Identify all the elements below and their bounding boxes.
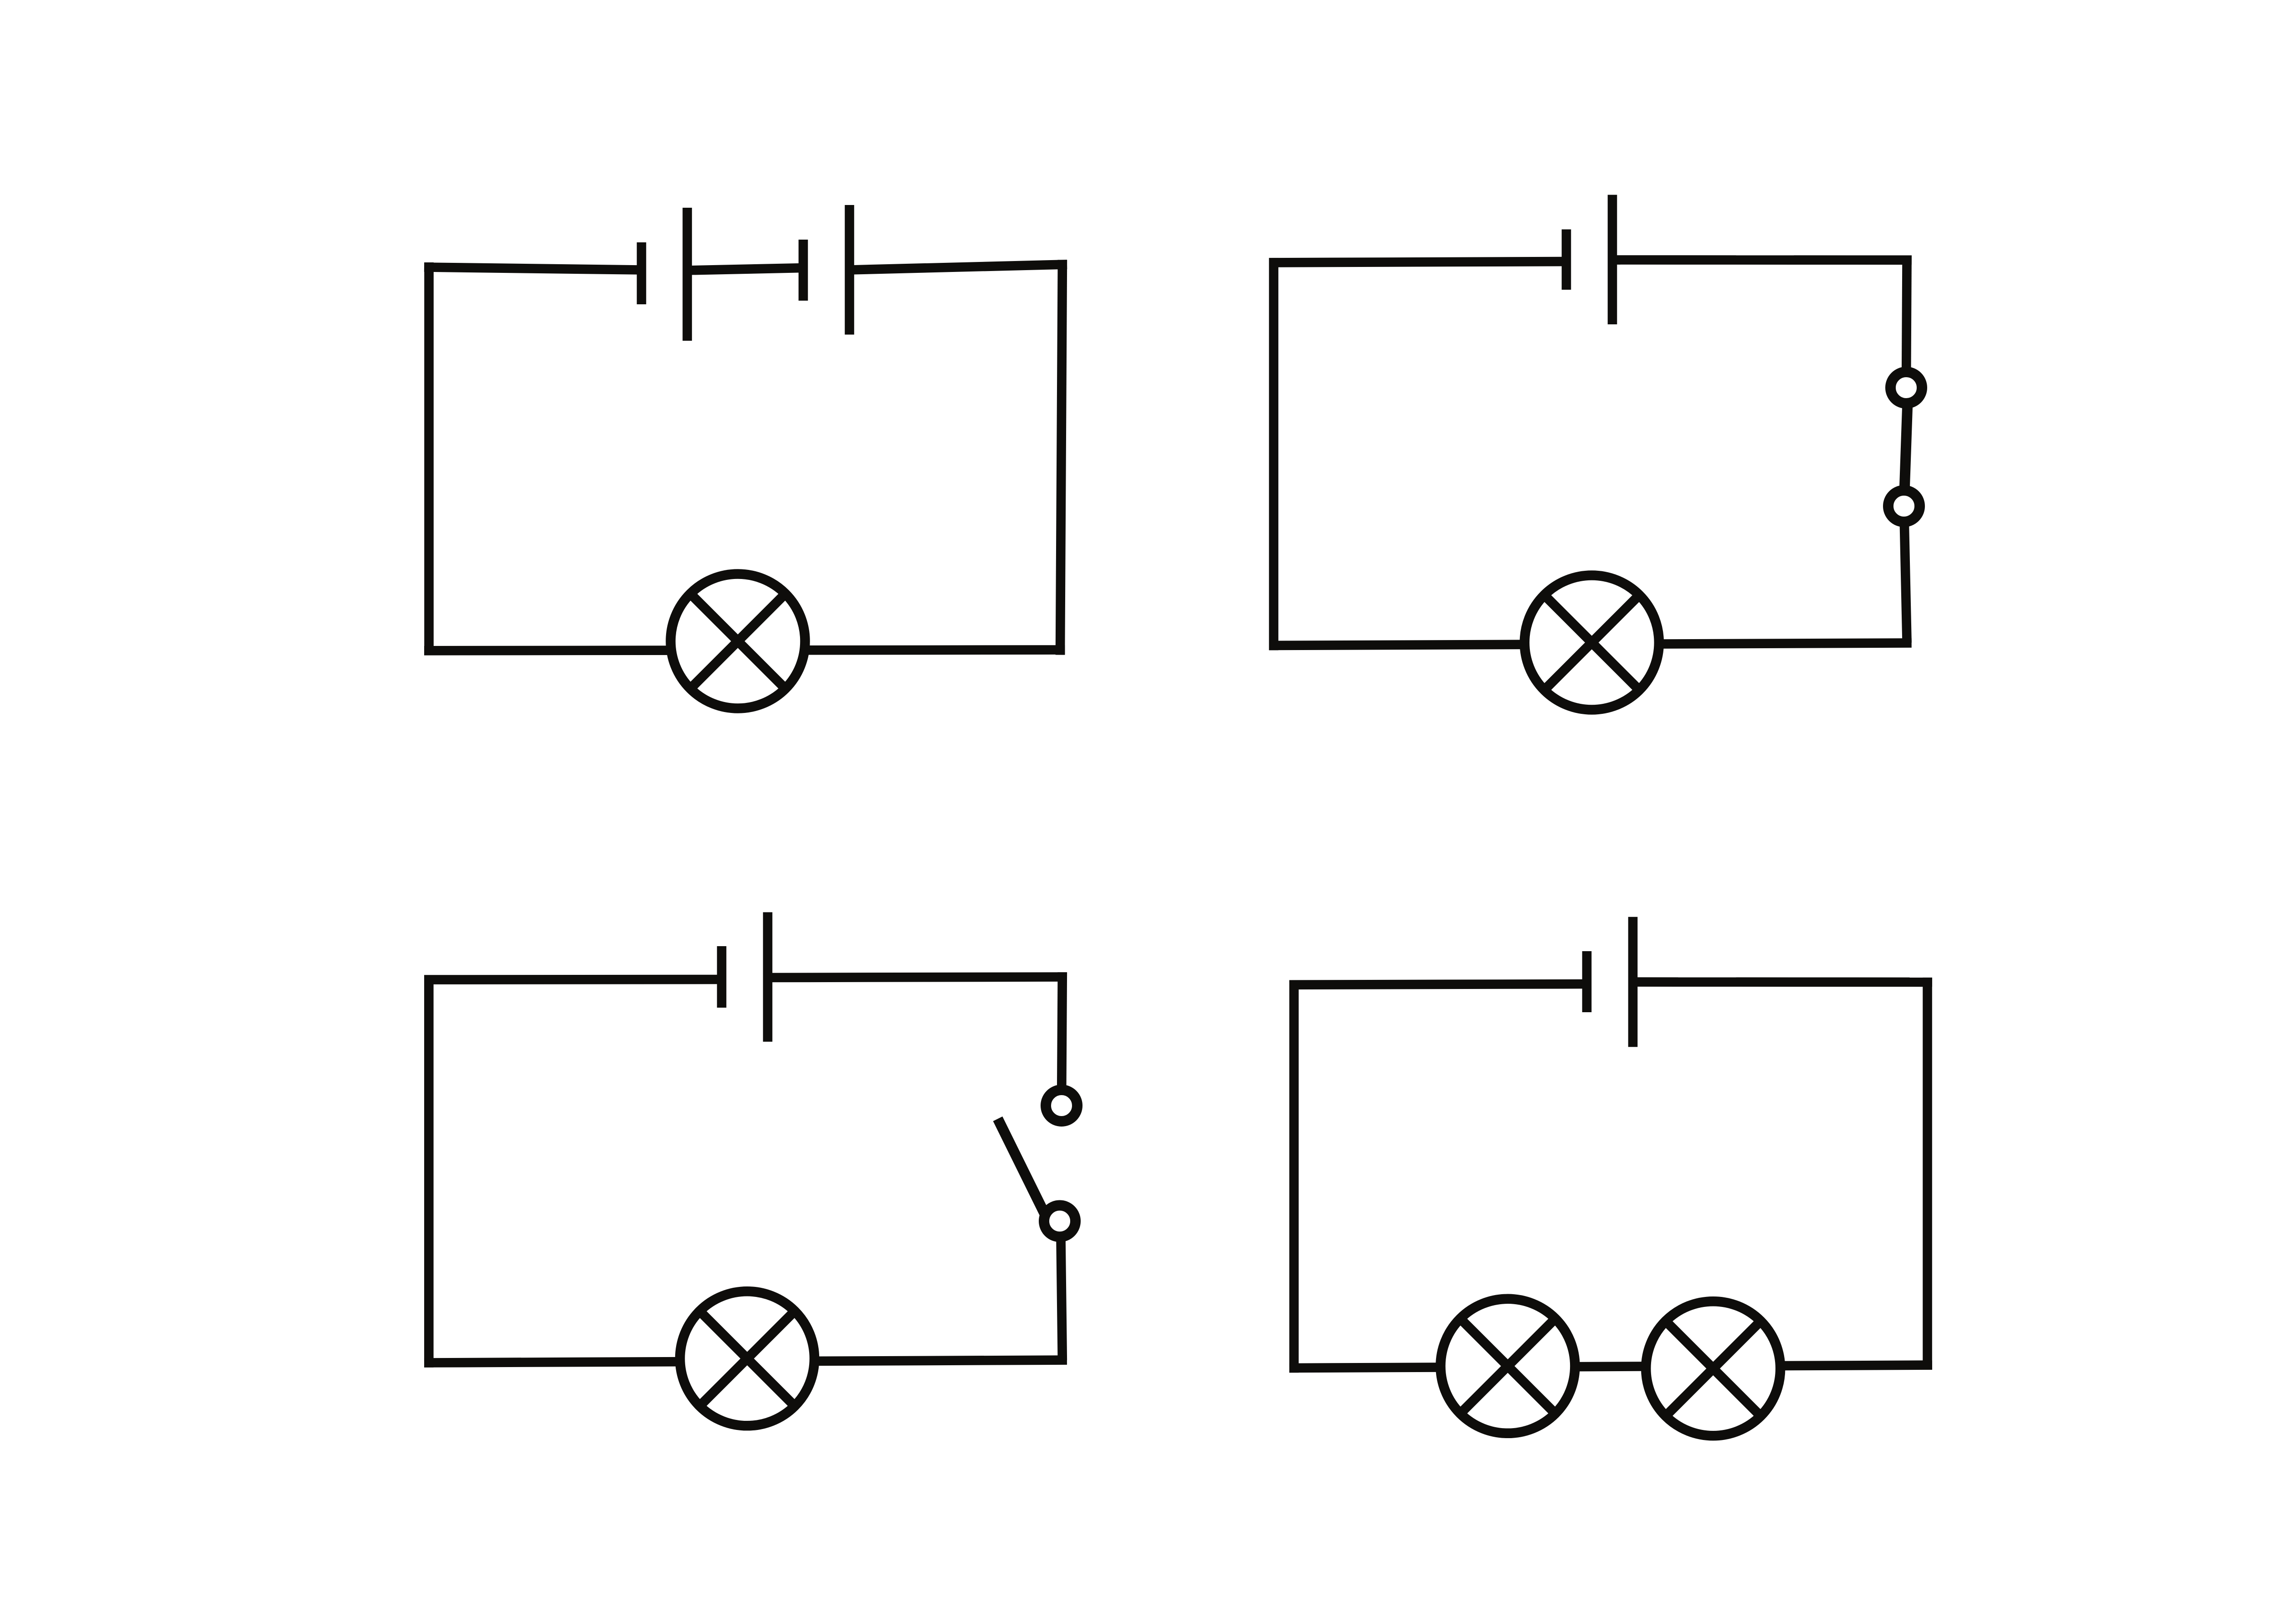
- switch S1 lower contact circle: [1888, 491, 1920, 522]
- wire: circuit 2 top right segment: [1608, 255, 1912, 265]
- lamp L3 circle: [680, 1291, 815, 1426]
- wire: circuit 4 right vertical: [1923, 978, 1932, 1370]
- battery B3 negative (short bar): [717, 946, 727, 1008]
- wire: circuit 1 top left segment: [424, 267, 641, 270]
- wire: circuit 1 left vertical: [424, 262, 434, 656]
- wire: circuit 3 top left segment: [424, 975, 722, 984]
- lamp L3 cross stroke 1: [700, 1311, 795, 1406]
- battery B3 positive (tall bar): [763, 912, 773, 1042]
- wire: circuit 2 right vertical upper: [1906, 256, 1907, 388]
- switch S2 lower contact circle: [1044, 1205, 1076, 1237]
- wire: circuit 4 top left segment: [1289, 984, 1587, 985]
- switch S2 lever (open): [998, 1119, 1050, 1225]
- lamp L5 cross stroke 2: [1666, 1321, 1761, 1416]
- wire: circuit 4 bottom: [1289, 1365, 1932, 1368]
- wire: circuit 1 bottom: [424, 650, 1065, 651]
- wire: circuit 4 left vertical: [1289, 980, 1299, 1373]
- wire: circuit 3 right vertical upper: [1062, 972, 1062, 1106]
- wire: circuit 4 top right segment: [1628, 977, 1932, 987]
- battery B1 cell1 negative (short bar): [637, 242, 646, 304]
- wire: circuit 3 top right segment: [763, 977, 1067, 978]
- lamp L4 cross stroke 2: [1460, 1319, 1555, 1414]
- wire: circuit 3 left vertical: [424, 975, 434, 1368]
- lamp L4 cross stroke 1: [1460, 1319, 1555, 1414]
- battery B2 positive (tall bar): [1608, 195, 1617, 324]
- battery B1 cell2 positive (tall bar): [845, 205, 854, 335]
- wire: circuit 2 top left segment: [1269, 261, 1566, 263]
- lamp L5 cross stroke 1: [1666, 1321, 1761, 1416]
- lamp L2 circle: [1524, 575, 1659, 710]
- wire: circuit 2 bottom: [1269, 643, 1912, 646]
- switch S1 upper contact circle: [1891, 372, 1922, 404]
- switch S1 connecting rod: [1904, 388, 1908, 506]
- wire: circuit 1 between cells: [687, 268, 804, 271]
- wire: circuit 1 right vertical: [1060, 260, 1062, 655]
- wire: circuit 1 top right segment: [849, 264, 1067, 270]
- switch S2 upper contact circle: [1046, 1090, 1077, 1122]
- wire: circuit 3 bottom: [424, 1360, 1067, 1363]
- lamp L1 circle: [671, 574, 805, 708]
- battery B2 negative (short bar): [1562, 230, 1571, 290]
- wire: circuit 2 left vertical: [1269, 258, 1278, 650]
- lamp L2 cross stroke 1: [1544, 595, 1640, 690]
- wire: circuit 2 right vertical lower: [1904, 506, 1907, 643]
- lamp L1 cross stroke 2: [690, 594, 785, 689]
- lamp L3 cross stroke 2: [700, 1311, 795, 1406]
- battery B4 negative (short bar): [1582, 951, 1592, 1012]
- lamp L1 cross stroke 1: [690, 594, 785, 689]
- lamp L2 cross stroke 2: [1544, 595, 1640, 690]
- battery B1 cell2 negative (short bar): [799, 240, 808, 301]
- lamp L5 circle: [1646, 1301, 1780, 1436]
- wire: circuit 3 right vertical lower: [1061, 1221, 1062, 1360]
- battery B1 cell1 positive (tall bar): [682, 208, 692, 341]
- lamp L4 circle: [1441, 1299, 1575, 1433]
- battery B4 positive (tall bar): [1628, 917, 1638, 1047]
